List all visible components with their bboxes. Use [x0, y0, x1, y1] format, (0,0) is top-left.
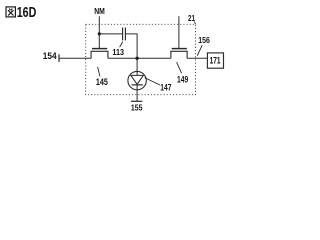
svg-text:149: 149 — [177, 74, 188, 84]
wire: NM vertical (gate lead of 145 up to NM) — [98, 16, 100, 48]
svg-text:147: 147 — [160, 83, 171, 93]
svg-text:155: 155 — [131, 102, 143, 112]
node junction at photodiode — [135, 57, 138, 60]
leader 145 — [98, 67, 100, 77]
wire: cap branch right, corner down to photodiode node — [126, 34, 138, 72]
leader 21 — [194, 22, 195, 25]
wire: photodiode down to terminal 155 — [136, 90, 138, 102]
node junction on NM (gate lead) — [98, 32, 101, 35]
wire: cap branch left — [99, 33, 122, 35]
wire: gate lead of 149 up — [178, 16, 180, 48]
wire: 154 to transistor 145 source — [59, 57, 91, 59]
svg-text:145: 145 — [96, 77, 108, 87]
wire: between 145 and 149 — [108, 57, 171, 59]
svg-text:21: 21 — [188, 13, 195, 23]
svg-text:113: 113 — [112, 47, 124, 57]
svg-text:NM: NM — [94, 7, 105, 16]
svg-text:16D: 16D — [17, 4, 37, 21]
box 171 — [207, 53, 223, 68]
terminal 154 tick — [58, 54, 60, 62]
leader 156 — [197, 45, 202, 56]
svg-text:154: 154 — [43, 51, 57, 61]
wire: 149 drain to output box 171 — [187, 57, 207, 59]
leader 149 — [177, 62, 182, 73]
capacitor 113 — [123, 28, 126, 41]
svg-text:156: 156 — [198, 35, 210, 45]
leader 113 — [120, 42, 123, 48]
photodiode 147 — [128, 71, 146, 89]
terminal 155 bar — [131, 100, 142, 102]
transistor 149 — [170, 49, 187, 59]
figure title 図16D — [6, 7, 15, 17]
dashed box 21 (pixel block) — [86, 24, 196, 94]
svg-text:171: 171 — [210, 55, 221, 65]
transistor 145 — [91, 49, 109, 59]
leader 147 — [145, 78, 160, 85]
